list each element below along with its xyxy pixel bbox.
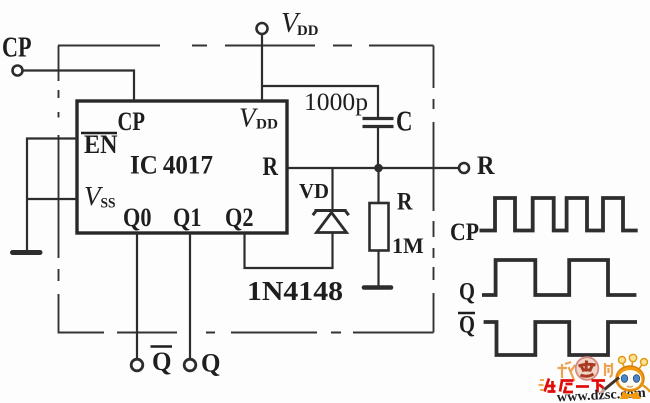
terminal Qbar xyxy=(131,359,143,371)
dashed module boundary left border xyxy=(58,46,60,334)
watermark: orange text "zhao xin pian" stylized xyxy=(558,362,613,381)
svg-text:R: R xyxy=(263,152,279,181)
input terminal CP xyxy=(13,66,23,76)
svg-text:Q: Q xyxy=(201,349,221,378)
wire node to diode VD cathode xyxy=(331,168,333,210)
svg-text:R: R xyxy=(397,189,413,216)
svg-text:VD: VD xyxy=(299,179,329,203)
resistor R 1M body xyxy=(370,203,389,251)
svg-text:1N4148: 1N4148 xyxy=(247,276,343,306)
ground (left, EN/VSS) xyxy=(13,250,41,255)
svg-text:EN: EN xyxy=(84,130,118,159)
junction node (R pin / C / resistor R / diode) xyxy=(374,164,383,173)
dashed module boundary bottom border xyxy=(59,332,434,334)
wire VDD branch to capacitor C xyxy=(262,86,378,117)
output terminal R xyxy=(459,163,469,173)
dashed module boundary right border xyxy=(433,46,435,333)
terminal Q xyxy=(184,359,196,371)
svg-text:CP: CP xyxy=(118,107,146,136)
diode VD cathode bar xyxy=(313,211,349,216)
wire node to resistor R xyxy=(377,172,379,203)
capacitor C plates xyxy=(363,117,394,120)
svg-text:SS: SS xyxy=(101,196,116,212)
watermark: red circle logo with xin character xyxy=(576,357,599,380)
svg-text:Q2: Q2 xyxy=(225,203,254,232)
svg-text:IC 4017: IC 4017 xyxy=(130,151,213,180)
watermark: mascot body and legs xyxy=(620,391,641,399)
svg-text:1000p: 1000p xyxy=(304,89,368,116)
svg-text:Q: Q xyxy=(152,347,172,376)
watermark: orange speed lines xyxy=(539,380,545,390)
svg-text:R: R xyxy=(477,151,495,180)
svg-text:Q: Q xyxy=(459,312,475,339)
power terminal VDD xyxy=(257,23,268,34)
diode VD triangle (anode) xyxy=(317,213,347,233)
svg-text:DD: DD xyxy=(297,23,319,39)
wire VSS pin to ground net xyxy=(27,198,77,200)
wire CP input to IC CP pin xyxy=(23,71,134,102)
wire VDD terminal to IC VDD pin xyxy=(261,35,263,102)
overline of EN xyxy=(81,132,117,135)
watermark: red text "wei ku yi xia" stylized xyxy=(545,379,606,393)
svg-text:CP: CP xyxy=(450,219,479,246)
wire IC Q1 pin to terminal Q xyxy=(189,233,191,359)
svg-text:Q0: Q0 xyxy=(123,203,152,232)
dashed module boundary top border xyxy=(58,45,434,47)
wire IC Q0 pin to terminal Qbar xyxy=(136,233,138,359)
waveform CP xyxy=(480,198,638,231)
wire diode VD anode to IC Q2 pin xyxy=(245,233,333,269)
svg-text:C: C xyxy=(396,107,413,138)
wire resistor R to ground xyxy=(377,251,379,288)
IC U1 4017 body xyxy=(77,101,287,233)
overline of Qbar waveform label xyxy=(458,312,475,315)
wire capacitor C to node R xyxy=(377,128,379,168)
watermark: mascot head xyxy=(616,366,644,391)
watermark: mascot pen xyxy=(603,378,620,392)
svg-text:CP: CP xyxy=(2,33,32,64)
waveform Qbar xyxy=(484,322,637,355)
wire EN pin to ground net xyxy=(27,139,77,251)
svg-text:1M: 1M xyxy=(392,233,424,258)
svg-text:Q: Q xyxy=(459,279,475,306)
wire IC R pin to output terminal R xyxy=(287,167,459,169)
ground (resistor R) xyxy=(364,285,391,290)
watermark: mascot crown stalks xyxy=(623,361,643,369)
svg-text:DD: DD xyxy=(256,117,278,133)
overline of Qbar terminal label xyxy=(151,345,173,348)
watermark: mascot crown balls xyxy=(619,354,648,365)
watermark: mascot eyes xyxy=(621,375,627,383)
svg-text:Q1: Q1 xyxy=(173,203,202,232)
waveform Q xyxy=(482,260,636,295)
